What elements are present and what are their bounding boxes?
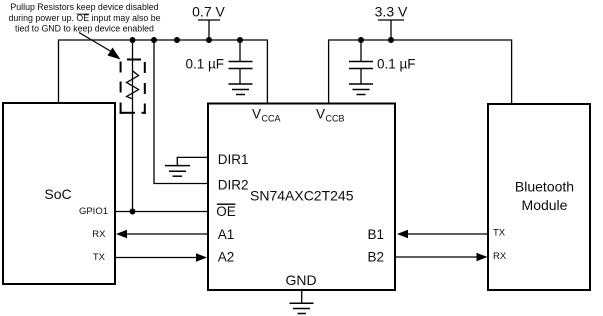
- wire GPIO1 to OE: [115, 211, 208, 213]
- junction dots on VCCB rail: [358, 37, 394, 43]
- ground under C2: [349, 84, 373, 95]
- capacitor C1 0.1uF (A side): [229, 40, 253, 84]
- svg-text:OE: OE: [216, 204, 236, 219]
- svg-text:V: V: [252, 107, 261, 122]
- svg-text:3.3 V: 3.3 V: [375, 4, 408, 20]
- svg-text:SN74AXC2T245: SN74AXC2T245: [250, 188, 354, 204]
- wire B2 to BT RX with arrow: [395, 253, 488, 261]
- svg-text:tied to GND to keep device ena: tied to GND to keep device enabled: [15, 24, 154, 34]
- supply 3.3 V: [375, 4, 408, 41]
- wire B1 to BT TX with arrow: [397, 230, 488, 238]
- svg-text:GPIO1: GPIO1: [79, 206, 108, 217]
- svg-text:A1: A1: [218, 227, 235, 242]
- svg-text:Pullup Resistors keep device d: Pullup Resistors keep device disabled: [10, 2, 158, 12]
- pin label OE with overline: [216, 204, 236, 219]
- SoC block: [3, 103, 115, 284]
- wire A1 to RX with arrow: [116, 230, 208, 238]
- svg-text:0.1 µF: 0.1 µF: [185, 57, 224, 72]
- annotation note text: [8, 2, 160, 34]
- resistor R pullup zigzag: [127, 71, 139, 99]
- supply 0.7 V: [192, 4, 225, 41]
- svg-text:CCA: CCA: [262, 114, 281, 124]
- pin label VCCB: [316, 107, 345, 124]
- Bluetooth Module block: [488, 104, 590, 290]
- wire TX to A2 with arrow: [115, 253, 207, 261]
- svg-text:B2: B2: [367, 249, 384, 264]
- svg-text:CCB: CCB: [326, 114, 345, 124]
- Bluetooth Module label: [515, 179, 574, 214]
- svg-text:B1: B1: [367, 227, 384, 242]
- svg-text:RX: RX: [493, 251, 507, 262]
- wire DIR2 branch: [154, 40, 208, 184]
- svg-text:RX: RX: [92, 229, 106, 240]
- pin label VCCA: [252, 107, 281, 124]
- svg-text:0.1 µF: 0.1 µF: [377, 57, 416, 72]
- svg-text:TX: TX: [93, 252, 106, 263]
- svg-text:TX: TX: [493, 228, 506, 239]
- junction dots on VCCA rail: [130, 37, 244, 43]
- capacitor C2 0.1uF (B side): [349, 40, 373, 84]
- wire VCCB rail: [329, 40, 512, 104]
- svg-text:V: V: [316, 107, 325, 122]
- ground at IC GND pin: [290, 290, 314, 314]
- junction dot OE/resistor: [130, 209, 136, 215]
- svg-text:SoC: SoC: [44, 186, 71, 202]
- svg-text:GND: GND: [285, 272, 316, 288]
- wire VCCA rail: [59, 40, 268, 103]
- IC SN74AXC2T245 box: [208, 104, 395, 291]
- svg-text:Bluetooth: Bluetooth: [515, 179, 574, 195]
- ground at DIR1: [165, 157, 208, 176]
- wire resistor branch: [132, 40, 134, 212]
- svg-text:A2: A2: [218, 250, 235, 265]
- ground under C1: [229, 84, 253, 95]
- dashed box around pullup resistor: [120, 60, 146, 114]
- svg-text:DIR2: DIR2: [218, 178, 249, 193]
- annotation arrow: [79, 33, 121, 60]
- svg-text:DIR1: DIR1: [218, 152, 249, 167]
- svg-text:Module: Module: [522, 197, 568, 213]
- svg-text:0.7 V: 0.7 V: [192, 4, 225, 20]
